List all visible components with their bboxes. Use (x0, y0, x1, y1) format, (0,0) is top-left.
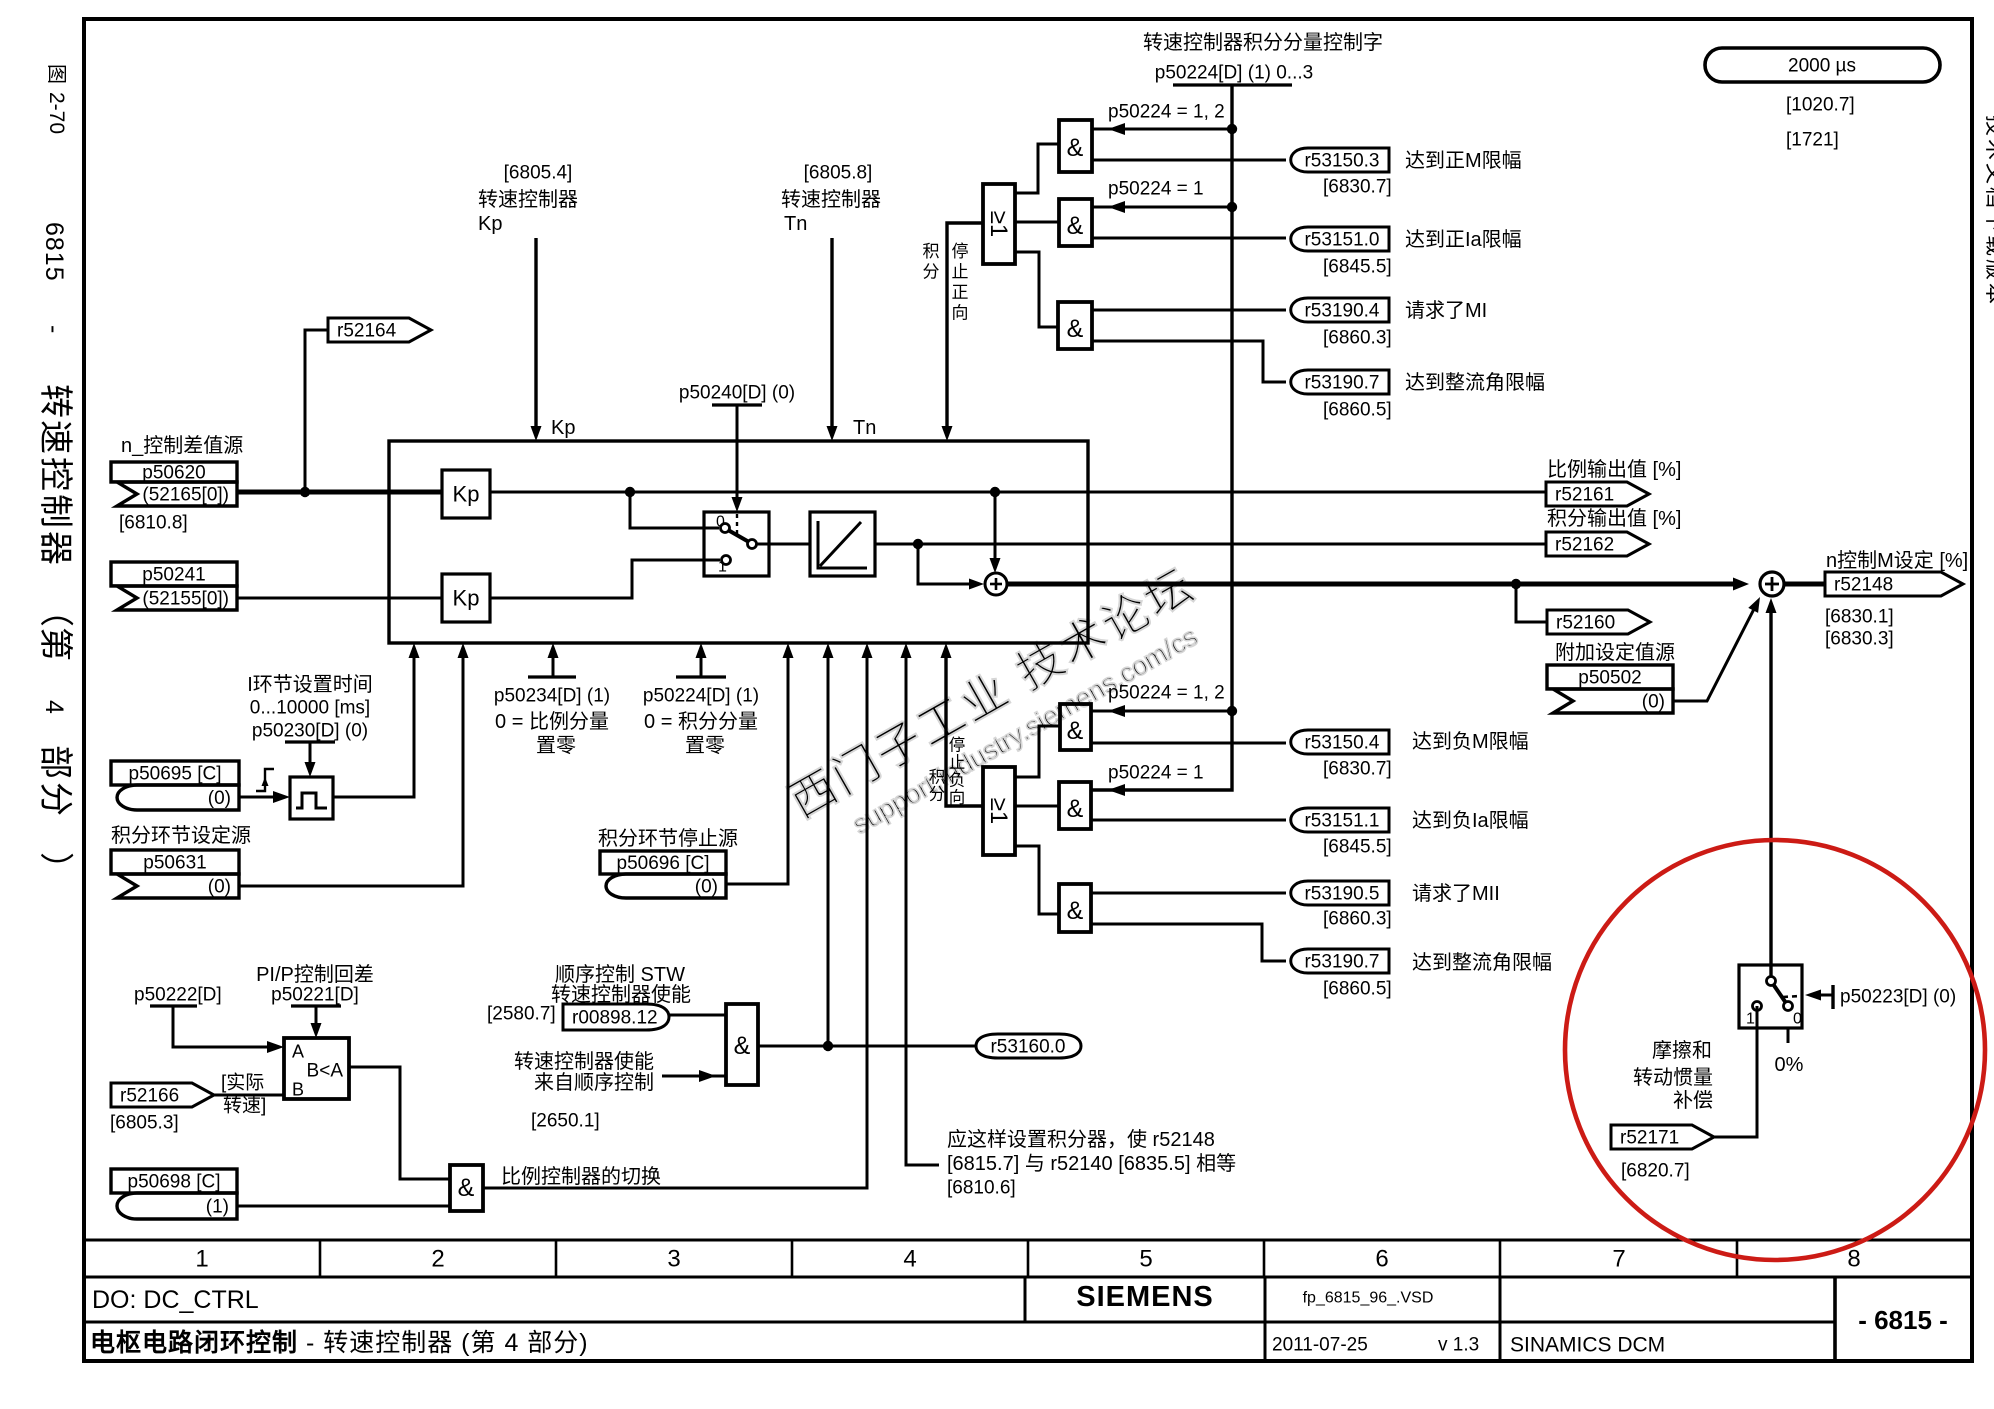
svg-text:[6820.7]: [6820.7] (1621, 1161, 1690, 1182)
label 积分环节设定源 (111, 824, 251, 847)
label 达到正Ia限幅 (1405, 228, 1522, 251)
date 2011-07-25 (1272, 1335, 1368, 1356)
wire A7 up to PI block (823, 643, 834, 1046)
svg-text:[6845.5]: [6845.5] (1323, 837, 1392, 858)
wire p50695 to pulse (239, 791, 290, 803)
svg-text:控: 控 (36, 457, 74, 491)
node bus A2 (1227, 202, 1237, 212)
scan time pill 2000 µs (1705, 48, 1940, 82)
svg-text:[6805.4]: [6805.4] (504, 163, 573, 184)
wire r52171 to switch (1712, 1006, 1757, 1137)
wire select A1 (1092, 123, 1232, 135)
svg-text:转: 转 (36, 384, 74, 418)
and gate A4 (1060, 704, 1091, 750)
svg-text:应这样设置积分器，使 r52148: 应这样设置积分器，使 r52148 (947, 1128, 1215, 1151)
svg-text:SINAMICS DCM: SINAMICS DCM (1510, 1333, 1665, 1356)
node prop to switch (625, 487, 635, 497)
label 达到负Ia限幅 (1412, 809, 1529, 832)
svg-text:[6805.8]: [6805.8] (804, 163, 873, 184)
svg-text:p50698 [C]: p50698 [C] (128, 1172, 221, 1193)
label p50234[D] (1) (494, 686, 610, 707)
svg-text:r52160: r52160 (1556, 613, 1615, 634)
wire p50696 to PI block (726, 643, 794, 884)
label 转速控制器 (Tn) (781, 188, 881, 211)
status flag r53150.3 (1291, 148, 1389, 172)
wire Kp1 output (proportional) (490, 491, 1546, 494)
p50240 underline bar (712, 403, 762, 406)
label p50224[D] (1) (643, 686, 759, 707)
svg-text:-: - (40, 325, 68, 333)
label p50224 = 1, 2 (lower) (1108, 683, 1225, 704)
product SINAMICS DCM (1510, 1333, 1665, 1356)
column header band lines (84, 1240, 1972, 1277)
svg-text:&: & (1067, 134, 1084, 162)
wire O2 to A5 (1015, 805, 1059, 808)
svg-text:p50221[D]: p50221[D] (271, 985, 359, 1006)
svg-text:（: （ (36, 593, 74, 627)
column numbers 1-8 (195, 1245, 1860, 1272)
svg-text:请求了MII: 请求了MII (1412, 882, 1500, 905)
svg-text:[6860.5]: [6860.5] (1323, 979, 1392, 1000)
svg-text:&: & (1067, 795, 1084, 823)
svg-text:r53150.4: r53150.4 (1304, 733, 1379, 754)
svg-text:r53190.7: r53190.7 (1304, 373, 1379, 394)
svg-text:&: & (1067, 315, 1084, 343)
svg-text:2011-07-25: 2011-07-25 (1272, 1335, 1368, 1356)
svg-text:p50695 [C]: p50695 [C] (129, 764, 222, 785)
wire to r52148 (thick) (1784, 582, 1825, 587)
header 转速控制器积分分量控制字 (1143, 31, 1383, 54)
parameter p50240[D] (0) (679, 383, 795, 404)
and gate A7 (726, 1004, 758, 1085)
wire PI output (thick) (1007, 578, 1749, 591)
svg-text:补偿: 补偿 (1673, 1089, 1713, 1112)
p50224 underline bar (1173, 83, 1292, 86)
svg-text:附加设定值源: 附加设定值源 (1555, 641, 1675, 664)
wire p50631 to PI block (239, 643, 469, 886)
svg-text:r53190.7: r53190.7 (1304, 952, 1379, 973)
label [实际 (221, 1072, 264, 1094)
svg-text:达到整流角限幅: 达到整流角限幅 (1412, 951, 1552, 974)
comparator B<A (284, 1038, 349, 1099)
svg-text:r53160.0: r53160.0 (990, 1037, 1065, 1058)
switch dashed actuator (736, 514, 738, 534)
svg-text:n控制M设定 [%]: n控制M设定 [%] (1826, 549, 1968, 572)
label 转速] (223, 1095, 266, 1117)
svg-text:p50240[D] (0): p50240[D] (0) (679, 383, 795, 404)
label 转动惯量 (1633, 1066, 1713, 1089)
label Tn (784, 213, 807, 235)
svg-text:达到正M限幅: 达到正M限幅 (1405, 149, 1522, 172)
ref [6830.3] (1825, 629, 1894, 650)
switch wire in 1 (490, 560, 720, 598)
svg-text:8: 8 (1847, 1245, 1860, 1272)
wire p50230 to pulse (305, 742, 316, 777)
svg-text:[6830.1]: [6830.1] (1825, 607, 1894, 628)
label 转速控制器使能 (mid) (514, 1050, 654, 1073)
svg-text:SIEMENS: SIEMENS (1076, 1281, 1214, 1313)
label Tn at arrow (853, 417, 876, 439)
svg-text:r53151.1: r53151.1 (1304, 811, 1379, 832)
wire O1 output (stop pos integration) (942, 223, 984, 441)
wire O2 to A6 (1015, 846, 1059, 914)
label 0...10000 [ms] (250, 698, 370, 719)
svg-text:p50696 [C]: p50696 [C] (617, 853, 710, 874)
svg-text:1: 1 (1746, 1011, 1755, 1028)
svg-text:0 = 比例分量: 0 = 比例分量 (495, 710, 609, 733)
wire select A5 arrowhead (1108, 784, 1125, 796)
and gate A3 (1058, 302, 1092, 349)
title text DO: DC_CTRL (92, 1286, 259, 1314)
svg-text:[6845.5]: [6845.5] (1323, 257, 1392, 278)
svg-text:转速控制器: 转速控制器 (478, 188, 578, 211)
svg-text:DO: DC_CTRL: DO: DC_CTRL (92, 1286, 259, 1314)
wire set-P-zero select (528, 643, 576, 677)
svg-text:电枢电路闭环控制 - 转速控制器 (第 4 部分): 电枢电路闭环控制 - 转速控制器 (第 4 部分) (90, 1329, 589, 1357)
ref [6820.7] (1621, 1161, 1690, 1182)
output connector r52171 (1611, 1125, 1714, 1149)
input connector p50698 (111, 1169, 237, 1219)
svg-text:图: 图 (45, 64, 67, 84)
svg-text:p50502: p50502 (1578, 668, 1641, 689)
svg-text:p50224[D] (1): p50224[D] (1) (643, 686, 759, 707)
wire p50221 to comparator top (311, 1006, 322, 1038)
switch contact 0 label (716, 514, 725, 531)
svg-text:Kp: Kp (551, 417, 575, 439)
and gate A8 (450, 1165, 483, 1211)
p50222 underline bar (150, 1004, 197, 1007)
label 积分环节停止源 (598, 827, 738, 850)
status flag r53190.7 lower (1291, 949, 1389, 973)
ref [6810.8] (119, 513, 188, 534)
output connector r52148 (1825, 572, 1963, 596)
node PI output to r52160 (1511, 579, 1521, 589)
svg-text:(0): (0) (208, 877, 231, 898)
wire A4 to r53150.4 (1091, 742, 1286, 745)
svg-text:速: 速 (36, 420, 74, 454)
wire select A2 (1092, 201, 1232, 213)
gain block Kp1 (442, 470, 490, 518)
svg-text:- 6815 -: - 6815 - (1858, 1305, 1948, 1335)
svg-text:[6830.3]: [6830.3] (1825, 629, 1894, 650)
label 置零 (I) (685, 735, 725, 757)
file name fp_6815_96_.VSD (1303, 1290, 1434, 1307)
wire O2 output (stop neg integration) (941, 643, 984, 806)
wire r00898.12 to A7 (669, 1014, 726, 1017)
and gate A6 (1059, 884, 1091, 932)
svg-text:p50224[D] (1) 0...3: p50224[D] (1) 0...3 (1155, 63, 1313, 84)
svg-text:p50224 = 1, 2: p50224 = 1, 2 (1108, 102, 1225, 123)
wire p50620 to Kp1 (thick) (237, 490, 442, 495)
svg-text:Kp: Kp (478, 213, 502, 235)
svg-text:转速控制器积分分量控制字: 转速控制器积分分量控制字 (1143, 31, 1383, 54)
svg-text:B: B (292, 1079, 304, 1099)
vertical label 停止正向 (952, 242, 969, 323)
sheet title (90, 1329, 589, 1357)
integrator block (810, 512, 875, 576)
svg-text:[6860.3]: [6860.3] (1323, 909, 1392, 930)
svg-text:器: 器 (36, 531, 74, 565)
svg-text:r53151.0: r53151.0 (1304, 230, 1379, 251)
svg-text:转动惯量: 转动惯量 (1633, 1066, 1713, 1089)
svg-text:）: ） (36, 852, 74, 886)
p50230 underline bar (285, 740, 335, 743)
vertical label 积分 (upper) (923, 242, 940, 282)
status flag r53150.4 (1291, 730, 1389, 754)
ref [6845.5] lower (1323, 837, 1392, 858)
svg-text:6815: 6815 (40, 222, 68, 282)
label 来自顺序控制 (534, 1071, 654, 1094)
svg-text:[实际: [实际 (221, 1072, 264, 1094)
svg-text:p50224 = 1, 2: p50224 = 1, 2 (1108, 683, 1225, 704)
input connector p50241 (111, 562, 237, 610)
ref [2580.7] (487, 1004, 556, 1025)
svg-text:(1): (1) (206, 1197, 229, 1218)
forum watermark (781, 558, 1223, 861)
label 达到整流角限幅 lower (1412, 951, 1552, 974)
wire O1 to A3 (1015, 252, 1058, 327)
ref [6830.1] (1825, 607, 1894, 628)
switch blade (728, 530, 749, 542)
node int output (913, 539, 923, 549)
svg-text:1: 1 (195, 1245, 208, 1272)
svg-text:7: 7 (1612, 1245, 1625, 1272)
status flag r53190.5 (1291, 881, 1389, 905)
svg-text:v 1.3: v 1.3 (1438, 1335, 1479, 1356)
node bus A1 (1227, 124, 1237, 134)
svg-text:r00898.12: r00898.12 (572, 1008, 658, 1029)
svg-text:[2580.7]: [2580.7] (487, 1004, 556, 1025)
label p50224 = 1 (upper) (1108, 179, 1204, 200)
label I环节设置时间 (247, 673, 373, 696)
label Kp (478, 213, 502, 235)
title block grid (84, 1277, 1835, 1361)
fc switch actuator dashed (1783, 985, 1833, 1009)
svg-text:B<A: B<A (307, 1061, 344, 1082)
svg-text:(52165[0]): (52165[0]) (142, 485, 229, 506)
label 比例输出值 [%] (1547, 458, 1681, 481)
wire comparator to A8 (349, 1067, 450, 1179)
svg-text:p50222[D]: p50222[D] (134, 985, 222, 1006)
label Kp at arrow (551, 417, 575, 439)
svg-text:比例控制器的切换: 比例控制器的切换 (501, 1165, 661, 1188)
parameter p50230[D] (0) (252, 721, 368, 742)
wire int to summer (918, 544, 984, 590)
svg-text:A: A (292, 1041, 304, 1061)
svg-text:&: & (734, 1032, 751, 1060)
ref [1721] (1786, 130, 1839, 151)
wire O1 to A2 (1015, 221, 1059, 224)
wire A3 to r53190.7 (1092, 341, 1286, 382)
wire A8 up to PI block (483, 643, 873, 1188)
svg-text:达到正Ia限幅: 达到正Ia限幅 (1405, 228, 1522, 251)
svg-text:r52148: r52148 (1834, 575, 1893, 596)
svg-text:2-70: 2-70 (45, 92, 68, 134)
label 顺序控制 STW (555, 963, 685, 986)
svg-text:[6830.7]: [6830.7] (1323, 759, 1392, 780)
svg-text:0%: 0% (1775, 1054, 1804, 1076)
wire p50698 to A8 (237, 1205, 450, 1208)
svg-text:部: 部 (36, 745, 74, 779)
svg-text:r53190.4: r53190.4 (1304, 301, 1379, 322)
svg-text:达到负Ia限幅: 达到负Ia限幅 (1412, 809, 1529, 832)
switch wire in 0 (630, 492, 719, 528)
or gate O1 (983, 184, 1015, 264)
parameter p50222[D] (134, 985, 222, 1006)
pulse shaper block (290, 777, 333, 819)
label 附加设定值源 (1555, 641, 1675, 664)
label 请求了MII (1412, 882, 1500, 905)
and gate A2 (1059, 199, 1092, 246)
wire A2 to r53151.0 (1092, 237, 1286, 240)
label 转速控制器 (Kp) (478, 188, 578, 211)
switch contact 1 label (718, 559, 727, 576)
svg-text:4: 4 (40, 700, 68, 714)
version v 1.3 (1438, 1335, 1479, 1356)
node A7 output (823, 1041, 833, 1051)
svg-text:停止负向: 停止负向 (949, 736, 966, 808)
svg-text:6: 6 (1375, 1245, 1388, 1272)
wire p50240 to switch (732, 405, 743, 512)
svg-text:转速]: 转速] (223, 1095, 266, 1117)
parameter p50221[D] (271, 985, 359, 1006)
svg-text:r52166: r52166 (120, 1086, 179, 1107)
wire to r52164 (305, 330, 328, 492)
svg-text:置零: 置零 (536, 735, 576, 757)
svg-text:转速控制器: 转速控制器 (781, 188, 881, 211)
ref [6805.3] (110, 1113, 179, 1134)
svg-text:[2650.1]: [2650.1] (531, 1111, 600, 1132)
ref [6860.5] upper (1323, 400, 1392, 421)
label 达到正M限幅 (1405, 149, 1522, 172)
svg-text:I环节设置时间: I环节设置时间 (247, 673, 373, 696)
svg-text:5: 5 (1139, 1245, 1152, 1272)
svg-text:r52164: r52164 (337, 321, 397, 342)
wire O1 to A1 (1015, 144, 1059, 193)
status flag r53160.0 (976, 1034, 1081, 1058)
wire A1 to r53150.3 (1092, 159, 1286, 162)
wire to r52160 (1516, 584, 1547, 622)
label PI/P控制回差 (256, 963, 374, 986)
label n_控制差值源 (121, 434, 243, 457)
svg-text:顺序控制 STW: 顺序控制 STW (555, 963, 685, 986)
svg-text:r53190.5: r53190.5 (1304, 884, 1379, 905)
svg-text:0: 0 (1793, 1011, 1802, 1028)
svg-text:[6810.8]: [6810.8] (119, 513, 188, 534)
vertical label 积分 (lower) (929, 768, 946, 804)
friction comp switch box (1739, 965, 1802, 1028)
node prop to summer (990, 487, 1000, 497)
svg-text:p50224 = 1: p50224 = 1 (1108, 763, 1204, 784)
status flag r53151.1 (1291, 808, 1389, 832)
svg-text:积分: 积分 (929, 768, 946, 804)
input connector p50620 (111, 462, 237, 506)
note line 2 (947, 1152, 1236, 1175)
svg-text:转速控制器使能: 转速控制器使能 (514, 1050, 654, 1073)
svg-text:达到负M限幅: 达到负M限幅 (1412, 730, 1529, 753)
wire pulse to PI block (333, 643, 420, 797)
svg-text:(0): (0) (208, 788, 231, 809)
status flag r53190.4 (1291, 298, 1389, 322)
left margin caption 6815 - 转速控制器（第 4 部分） (36, 222, 74, 886)
wire A3 to r53190.4 (1092, 309, 1286, 312)
svg-text:4: 4 (903, 1245, 916, 1272)
svg-text:p50224 = 1: p50224 = 1 (1108, 179, 1204, 200)
wire select A4 (1091, 705, 1232, 717)
edge symbol (256, 769, 274, 791)
svg-text:&: & (1067, 717, 1084, 745)
sheet number - 6815 - (1858, 1305, 1948, 1335)
output connector r52161 (1546, 482, 1649, 506)
svg-text:Tn: Tn (784, 213, 807, 235)
svg-text:[6860.3]: [6860.3] (1323, 328, 1392, 349)
svg-text:≥1: ≥1 (985, 798, 1012, 825)
svg-text:达到整流角限幅: 达到整流角限幅 (1405, 371, 1545, 394)
svg-text:积分输出值 [%]: 积分输出值 [%] (1547, 507, 1681, 530)
status flag r00898.12 (563, 1004, 669, 1030)
svg-text:r53150.3: r53150.3 (1304, 151, 1379, 172)
svg-text:p50241: p50241 (142, 565, 205, 586)
parameter p50224[D] (1) 0...3 (1155, 63, 1313, 84)
input connector p50631 (111, 850, 239, 898)
gain block Kp2 (442, 574, 490, 622)
ref [6805.8] (804, 163, 873, 184)
fc 0% stub (1787, 1028, 1790, 1043)
svg-text:(0): (0) (695, 877, 718, 898)
svg-text:来自顺序控制: 来自顺序控制 (534, 1071, 654, 1094)
label 0 = 积分分量 (644, 710, 758, 733)
summer 1 (985, 573, 1007, 595)
ref [6845.5] upper (1323, 257, 1392, 278)
wire Tn feed (827, 238, 838, 441)
svg-text:p50631: p50631 (143, 853, 206, 874)
label 转速控制器使能 (top) (551, 983, 691, 1006)
fc switch contacts (1753, 977, 1793, 1011)
ref [2650.1] (531, 1111, 600, 1132)
wire enable arrow to A7 (662, 1070, 726, 1082)
svg-text:[6830.7]: [6830.7] (1323, 177, 1392, 198)
p50221 underline bar (291, 1004, 341, 1007)
svg-text:0 = 积分分量: 0 = 积分分量 (644, 710, 758, 733)
svg-text:fp_6815_96_.VSD: fp_6815_96_.VSD (1303, 1290, 1434, 1307)
svg-text:&: & (1067, 212, 1084, 240)
output connector r52166 (111, 1083, 214, 1107)
output connector r52164 (328, 318, 431, 342)
input connector p50696 (600, 851, 726, 898)
output connector r52162 (1546, 532, 1649, 556)
svg-text:积分: 积分 (923, 242, 940, 282)
svg-text:p50230[D] (0): p50230[D] (0) (252, 721, 368, 742)
ref [6860.3] upper (1323, 328, 1392, 349)
svg-text:3: 3 (667, 1245, 680, 1272)
label 置零 (P) (536, 735, 576, 757)
svg-text:摩擦和: 摩擦和 (1652, 1039, 1712, 1062)
label 比例控制器的切换 (501, 1165, 661, 1188)
wire p50241 to Kp2 (237, 597, 442, 600)
ref [1020.7] (1786, 95, 1855, 116)
fc switch label 0 (1793, 1011, 1802, 1028)
svg-text:2000 µs: 2000 µs (1788, 56, 1856, 77)
wire Kp feed (531, 238, 542, 441)
wire A5 to r53151.1 (1091, 819, 1286, 822)
svg-text:[6815.7] 与 r52140 [6835.5] 相等: [6815.7] 与 r52140 [6835.5] 相等 (947, 1152, 1236, 1175)
svg-text:Kp: Kp (453, 482, 480, 507)
svg-text:分: 分 (36, 782, 74, 816)
label p50695 [C] (0, 0, 1, 1)
input connector p50502 (1547, 665, 1673, 713)
svg-text:置零: 置零 (685, 735, 725, 757)
node on n_dev line (300, 487, 310, 497)
